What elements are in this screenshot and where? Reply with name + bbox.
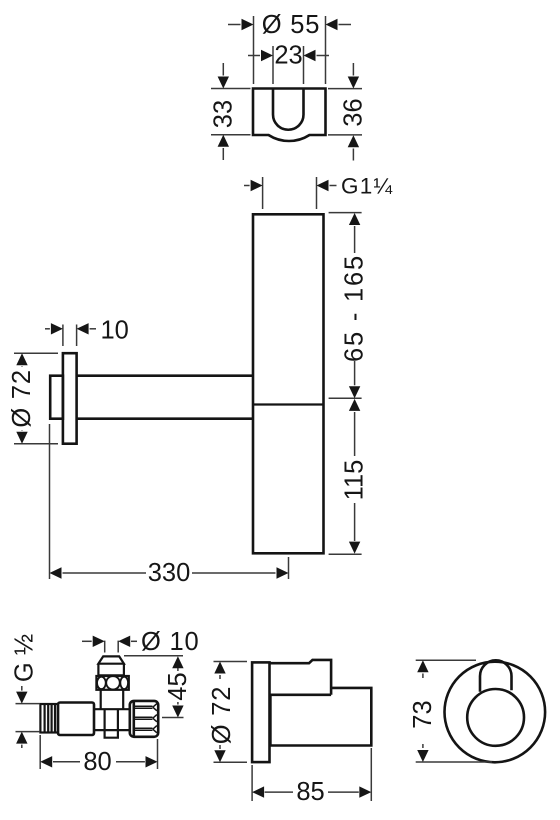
dim 33 arrows and stubs xyxy=(222,63,224,160)
angle valve knurled nut xyxy=(130,701,158,737)
angle valve body xyxy=(58,703,94,736)
svg-text:65 - 165: 65 - 165 xyxy=(341,254,369,362)
svg-text:45: 45 xyxy=(164,672,192,700)
svg-text:Ø 72: Ø 72 xyxy=(8,369,36,427)
dim 80 extension lines xyxy=(40,735,157,769)
dim 10 arrows and stubs xyxy=(45,328,96,330)
angle valve hex band xyxy=(96,676,128,690)
dim O72 bottom line xyxy=(219,675,221,749)
dim 45 extension lines xyxy=(124,656,184,718)
svg-text:Ø 10: Ø 10 xyxy=(141,628,199,656)
dim 36 arrows and stubs xyxy=(352,63,354,161)
svg-text:73: 73 xyxy=(409,700,437,728)
wall flange (middle view) xyxy=(63,353,77,444)
siphon vertical tube xyxy=(253,214,324,553)
dim 330 line xyxy=(63,572,276,574)
dim 80 line xyxy=(53,761,145,763)
dim 36 extension lines xyxy=(328,89,362,135)
svg-text:80: 80 xyxy=(83,748,111,776)
wall stub behind flange xyxy=(50,376,63,419)
dim G1 1/4 arrows and stubs xyxy=(244,185,337,187)
dim 85 extension lines xyxy=(252,748,371,801)
dim 330 extension lines xyxy=(50,424,289,579)
angle valve bonnet cap xyxy=(98,656,124,675)
dim 115 line xyxy=(354,412,356,541)
dim O10 valve extension lines xyxy=(105,641,119,653)
svg-text:115: 115 xyxy=(341,460,369,501)
angle valve knurl lines xyxy=(135,704,157,733)
side view flange xyxy=(252,662,269,762)
dim 23 extension lines xyxy=(273,46,304,84)
dim G1/2 extension lines xyxy=(16,704,40,732)
angle valve vertical pipe xyxy=(105,709,118,738)
dim G1/2 arrows and stubs xyxy=(21,686,23,748)
angle valve neck xyxy=(101,690,124,709)
angle valve hex band circles xyxy=(97,676,128,690)
dim 65-165 line xyxy=(354,226,356,385)
dim O72 middle line xyxy=(21,366,23,430)
dim 33 extension lines xyxy=(211,89,251,135)
front view pipe xyxy=(480,660,512,691)
dim 115 extension line bottom xyxy=(329,553,362,555)
siphon tube joint line xyxy=(253,403,324,405)
svg-text:330: 330 xyxy=(148,559,191,587)
svg-text:G ½: G ½ xyxy=(11,634,39,682)
dim O72 bottom extension lines xyxy=(214,662,248,763)
dim O72 middle extension lines xyxy=(14,353,58,444)
svg-text:33: 33 xyxy=(209,100,237,128)
front view outer circle xyxy=(445,662,546,763)
dim 73 extension lines xyxy=(416,660,492,762)
dim O55 extension lines xyxy=(254,16,326,84)
svg-text:Ø 55: Ø 55 xyxy=(262,11,320,39)
svg-text:10: 10 xyxy=(101,317,129,345)
dim O55 arrows and stubs xyxy=(228,24,351,26)
angle valve outlet pipe lines xyxy=(94,709,130,730)
svg-text:Ø 72: Ø 72 xyxy=(208,686,236,744)
front view inner circle xyxy=(467,689,524,746)
side view body xyxy=(270,660,372,746)
dim 10 extension lines xyxy=(63,325,77,347)
dim O10 valve arrows and stubs xyxy=(82,640,137,642)
dim 85 line xyxy=(265,791,359,793)
dim G1 1/4 extension lines xyxy=(263,177,317,209)
dim 23 arrows and stubs xyxy=(248,55,329,57)
horizontal pipe xyxy=(77,376,253,419)
svg-text:36: 36 xyxy=(339,98,367,126)
angle valve thread stub xyxy=(40,704,58,733)
svg-text:G1¼: G1¼ xyxy=(341,174,393,199)
svg-text:23: 23 xyxy=(274,42,302,70)
dim 65-165 extension lines xyxy=(329,213,362,399)
top view U cutout xyxy=(273,89,304,130)
dim 73 line xyxy=(422,674,424,749)
top view bracket outline xyxy=(253,89,326,142)
dim 45 line xyxy=(177,668,179,705)
svg-text:85: 85 xyxy=(296,778,324,806)
